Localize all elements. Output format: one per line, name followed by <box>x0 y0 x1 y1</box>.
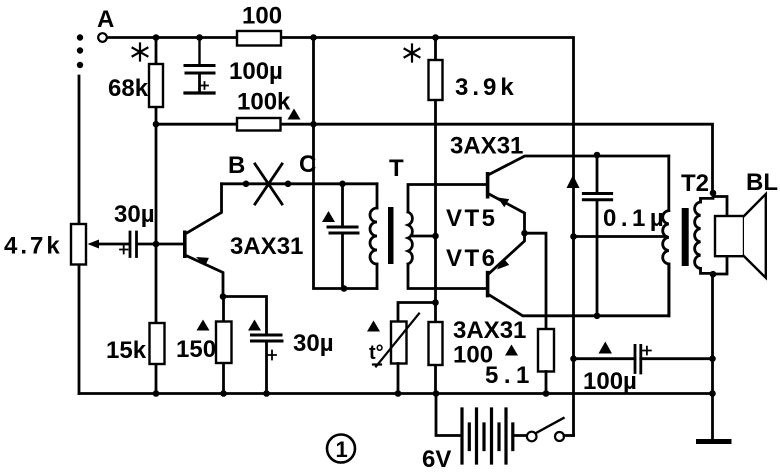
wire secondary center tap <box>411 235 436 238</box>
ground symbol <box>711 394 714 441</box>
svg-text:100: 100 <box>453 342 493 369</box>
resistor R 100k feedback <box>237 118 281 131</box>
star mark near 68k <box>133 44 148 61</box>
wire 3.9k bias branch x=435.5 top rail to bottom rail <box>434 38 437 394</box>
svg-text:30µ: 30µ <box>114 201 155 228</box>
svg-text:100k: 100k <box>237 89 291 116</box>
transformer T secondary <box>408 212 412 264</box>
capacitor C tank <box>341 184 344 226</box>
wire B-C collector line <box>222 182 378 185</box>
wire bottom ground rail <box>79 392 713 395</box>
star mark near 3.9k <box>405 45 420 62</box>
battery 6V <box>462 409 506 463</box>
marker triangle near thermistor <box>367 321 380 332</box>
wire battery negative branch from bottom rail down and right <box>436 394 462 436</box>
marker triangle near 150 <box>197 320 210 331</box>
resistor R 5.1 <box>538 329 554 372</box>
transistor VT6 <box>486 271 490 298</box>
wire dotted input column <box>77 34 83 68</box>
resistor R 15k <box>150 323 165 364</box>
transformer T2 primary <box>667 156 670 211</box>
wire secondary bottom down to ground <box>711 274 714 394</box>
svg-text:0.1µ: 0.1µ <box>603 205 668 232</box>
svg-text:A: A <box>97 6 114 33</box>
thermistor t <box>398 303 436 322</box>
transformer T2 core <box>682 208 689 266</box>
marker triangle at 100k <box>288 109 301 120</box>
transistor Q1 3AX31 <box>183 231 187 259</box>
marker triangle near 100u <box>599 342 613 354</box>
svg-text:1: 1 <box>336 437 348 462</box>
transformer T core <box>388 207 394 264</box>
wire Q1 emitter node down to 150 and ground rail <box>222 297 225 394</box>
speaker BL <box>715 216 744 256</box>
node A input terminal <box>98 33 107 42</box>
wire T2 primary center tap to supply <box>574 235 667 238</box>
svg-text:100µ: 100µ <box>583 368 637 395</box>
marker triangle near 30u <box>248 320 261 331</box>
svg-text:3.9k: 3.9k <box>455 74 518 101</box>
svg-text:t°: t° <box>369 342 384 364</box>
wiper arrow of pot <box>95 243 128 246</box>
svg-text:3AX31: 3AX31 <box>230 233 303 260</box>
resistor R 68k <box>149 64 163 107</box>
resistor R 100 bias <box>429 322 443 365</box>
svg-text:6V: 6V <box>422 446 451 472</box>
switch S <box>513 434 527 437</box>
svg-text:3AX31: 3AX31 <box>450 133 523 160</box>
svg-text:150: 150 <box>176 336 216 363</box>
marker triangle at tank cap <box>322 211 335 222</box>
capacitor C 0.1u <box>596 155 599 192</box>
wire pot bottom to ground rail <box>78 265 81 394</box>
transformer T2 secondary <box>701 198 714 202</box>
wire base of Q1 <box>138 243 184 246</box>
capacitor C 100u top <box>198 38 200 65</box>
svg-text:3AX31: 3AX31 <box>453 317 526 344</box>
resistor R 3.9k <box>429 60 443 100</box>
wire input column down to volume pot <box>78 76 81 224</box>
marker arrow up on supply line <box>567 175 580 188</box>
wire 68k/15k vertical branch at x=156 <box>155 38 158 394</box>
transformer T primary <box>376 184 379 208</box>
capacitor C 30u bypass <box>252 335 283 341</box>
wire supply branch x=313.5 down to oscillator tank bottom <box>314 38 378 289</box>
potentiometer R 4.7k <box>71 224 86 265</box>
svg-text:T2: T2 <box>681 170 709 197</box>
figure number circled 1 <box>327 435 355 463</box>
resistor R 100 top <box>237 31 281 46</box>
svg-text:30µ: 30µ <box>293 330 334 357</box>
wire secondary bottom to VT6 base <box>408 264 486 289</box>
wire Q1 emitter node to 30u cap <box>223 297 267 335</box>
resistor R 150 <box>216 322 232 364</box>
svg-text:C: C <box>299 151 316 178</box>
wire speaker bottom connection <box>713 256 727 274</box>
wire emitters junction to 5.1 resistor <box>525 233 547 329</box>
X break mark between B and C <box>255 164 282 204</box>
wire top supply rail from A to right corner and down to battery switch <box>107 38 574 436</box>
svg-text:T: T <box>389 155 404 182</box>
svg-text:68k: 68k <box>108 75 149 102</box>
svg-text:4.7k: 4.7k <box>4 233 63 260</box>
svg-text:VT5: VT5 <box>446 205 498 232</box>
svg-text:100µ: 100µ <box>229 58 283 85</box>
svg-text:VT6: VT6 <box>446 245 498 272</box>
svg-text:15k: 15k <box>106 337 147 364</box>
capacitor C 100u bypass bottom <box>574 357 636 360</box>
transistor VT5 <box>486 172 490 199</box>
capacitor C 30u coupling <box>130 232 137 257</box>
svg-text:100: 100 <box>242 3 282 30</box>
svg-text:B: B <box>228 152 245 179</box>
marker triangle near 5.1 <box>505 345 518 356</box>
wire feedback rail y=124 from 68k bottom to right corner down to speaker <box>156 124 713 193</box>
wire speaker top connection <box>713 197 727 217</box>
svg-text:BL: BL <box>746 169 778 196</box>
wire secondary top to VT5 base <box>408 185 486 213</box>
